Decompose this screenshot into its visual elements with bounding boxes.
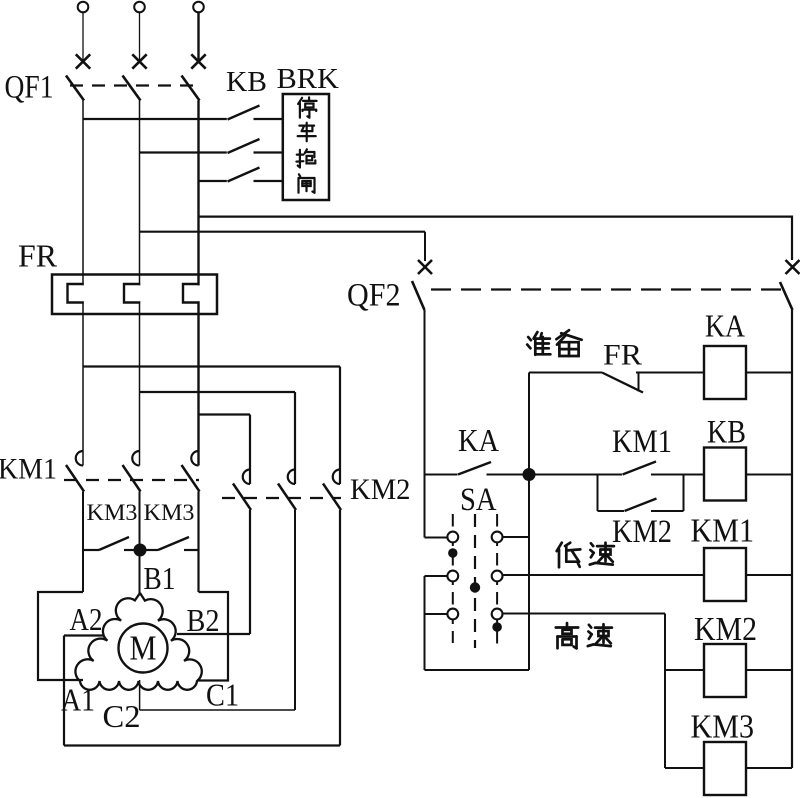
selector SA position dot right [492, 622, 502, 632]
label 备 [556, 330, 569, 339]
wire KA coil to rail [746, 372, 792, 374]
contactor KM3 contact right blade [158, 537, 189, 550]
contactor KM2 main contact 2 arc [288, 470, 295, 485]
switch KB contact 1 right wire [254, 118, 283, 120]
selector SA right dashed column [496, 514, 498, 647]
svg-text:C1: C1 [206, 677, 239, 713]
svg-text:KM1: KM1 [0, 453, 57, 486]
thermal relay FR box [52, 275, 217, 315]
switch KB contact 3 right wire [254, 180, 283, 182]
breaker QF1 terminal X phase 3 [191, 54, 205, 68]
contactor coil KM1 [704, 548, 746, 601]
contactor contact KM1 blade (control) [623, 462, 657, 475]
contactor KM3 contact left blade [99, 537, 129, 550]
label 抱 [299, 150, 301, 168]
contactor coil KM3 [704, 742, 746, 795]
switch KB contact 1 left wire [83, 118, 227, 120]
svg-text:QF2: QF2 [347, 278, 401, 314]
wire C2 horizontal [140, 709, 295, 711]
svg-text:A2: A2 [70, 601, 103, 637]
selector SA row3 left circle [447, 609, 458, 620]
label 速 (low) [591, 543, 593, 546]
label 低 [557, 543, 562, 551]
breaker QF1 blade phase 3 [182, 76, 200, 101]
contactor KM2 main contact 3 blade [323, 484, 341, 511]
svg-text:KM2: KM2 [612, 514, 672, 550]
wire rung3 (low speed) [502, 574, 704, 576]
thermal relay FR heater 2 [124, 284, 140, 303]
svg-text:KM1: KM1 [612, 424, 672, 460]
wire KM3 coil left [665, 767, 704, 769]
switch KB contact 3 left wire [199, 180, 227, 182]
contactor KM3 contact right stub [144, 549, 158, 551]
wire riser A2-rail to KM2 contact 3 [339, 510, 341, 746]
selector SA position dot middle [470, 582, 480, 592]
breaker QF1 blade phase 1 [66, 76, 84, 101]
wire SA row3 left stub [425, 613, 449, 615]
breaker QF2 linkage dashed [431, 288, 786, 290]
label 速 (high) [589, 625, 591, 628]
contactor KM1 main contact 1 blade [66, 465, 84, 492]
wire L1 below KM1 [82, 492, 84, 593]
wire SA row1 left stub [425, 537, 449, 539]
selector SA position dot left [448, 548, 457, 557]
wire lead phase 1 [82, 13, 84, 62]
contactor KM2 main contact 3 arc [333, 470, 340, 485]
wire rung1 right [636, 372, 704, 374]
thermal relay FR NC blade [602, 373, 643, 393]
wire A2 bottom rail [64, 744, 340, 746]
svg-text:KM3: KM3 [144, 500, 195, 525]
contactor KM2 main contact 1 arc [243, 470, 250, 485]
wire branch L3 to KM2 contact 1 [199, 413, 251, 415]
wire branch L2 to KM2 contact 2 [140, 391, 296, 393]
wire A2 horizontal [64, 634, 103, 636]
breaker QF2 right blade [780, 282, 793, 310]
selector SA row1 left circle [447, 532, 458, 543]
svg-text:KA: KA [458, 422, 499, 458]
selector SA left dashed column [452, 514, 454, 643]
thermal relay FR heater 3 [183, 284, 199, 303]
relay coil KA [704, 346, 746, 399]
breaker QF1 linkage dashed [70, 84, 196, 86]
relay contact KA blade [458, 462, 491, 475]
svg-text:KM1: KM1 [691, 513, 755, 550]
switch KB contact 2 right wire [254, 151, 283, 153]
svg-text:KM3: KM3 [87, 500, 138, 525]
svg-text:FR: FR [603, 339, 642, 372]
selector SA row1 right circle [492, 532, 503, 543]
wire top rail from L3 to right rail [199, 216, 793, 218]
wire phase 2 vertical L2 [139, 101, 141, 466]
switch KB contact 1 blade [228, 106, 260, 120]
svg-text:KM2: KM2 [350, 473, 411, 506]
breaker QF2 left blade [412, 281, 425, 310]
contactor KM3 contact right fixed stub [184, 549, 199, 551]
wire KM2 parallel left vertical [597, 475, 599, 512]
svg-text:A1: A1 [61, 682, 95, 718]
label 停 [298, 98, 302, 104]
wire rung1 left [529, 372, 602, 374]
svg-text:KM3: KM3 [691, 709, 755, 746]
contactor KM1 main contact 2 arc [132, 451, 139, 466]
wire high-speed vertical [664, 614, 666, 769]
wire branch L1 to KM2 contact 3 [83, 365, 340, 367]
supply terminal circle phase 3 [193, 2, 204, 13]
wire KM2 parallel bottom right [651, 510, 684, 512]
switch KB contact 2 left wire [140, 151, 227, 153]
wire from L2 to QF2 [140, 231, 426, 233]
supply terminal circle phase 1 [78, 2, 89, 13]
contactor KM1 main contact 3 arc [191, 451, 198, 466]
contactor KM1 main contact 3 blade [182, 465, 200, 492]
wire L3 to C1 outer path [197, 592, 228, 681]
switch KB contact 2 blade [228, 139, 260, 153]
wire KM2 coil to rail [746, 669, 792, 671]
svg-text:BRK: BRK [277, 63, 340, 95]
contactor KM2 main contact 2 blade [278, 484, 296, 511]
motor windings delta [75, 593, 201, 690]
contactor KM3 contact left fixed stub [124, 549, 136, 551]
svg-text:SA: SA [460, 482, 497, 518]
contactor contact KM2 blade (control) [625, 499, 657, 512]
thermal relay FR heater 1 [68, 284, 84, 303]
svg-text:KA: KA [705, 308, 745, 344]
switch KB contact 3 blade [228, 168, 260, 182]
selector SA row3 right circle [492, 609, 503, 620]
wire SA bottom link [425, 669, 530, 671]
brake unit BRK box [283, 94, 329, 200]
breaker QF1 terminal X phase 1 [76, 54, 90, 68]
wire B2 horizontal [177, 633, 250, 635]
wire lead phase 3 [197, 13, 199, 62]
contactor KM1 linkage dashed [64, 479, 199, 481]
svg-text:M: M [130, 629, 157, 668]
contactor KM2 linkage dashed [222, 497, 341, 499]
motor circle M [119, 624, 168, 673]
wire L3 below KM1 [197, 492, 199, 593]
wire KM2 parallel right vertical [683, 475, 685, 512]
svg-text:KB: KB [707, 415, 746, 451]
svg-text:B2: B2 [187, 602, 220, 638]
wire KM2 parallel bottom left [598, 510, 625, 512]
label 高 [566, 623, 569, 626]
breaker QF1 terminal X phase 2 [132, 54, 146, 68]
wire KM1 coil to rail [746, 574, 792, 576]
selector SA row2 left circle [447, 571, 458, 582]
wire rung2 left [425, 474, 458, 476]
thermal relay FR stop bar [638, 373, 640, 392]
wire phase 1 vertical L1 [82, 101, 84, 466]
wire C2 stub [139, 680, 141, 710]
contactor KM1 main contact 1 arc [76, 451, 83, 466]
wire riser C2 to KM2 contact 2 [294, 510, 296, 710]
breaker QF2 left X [418, 260, 432, 274]
supply terminal circle phase 2 [134, 2, 145, 13]
wire lead phase 2 [139, 13, 141, 62]
svg-text:B1: B1 [144, 560, 176, 596]
svg-text:QF1: QF1 [5, 70, 54, 106]
wire QF2 left vertical down [424, 310, 426, 538]
contactor KM3 contact left stub [83, 549, 99, 551]
breaker QF1 blade phase 2 [123, 76, 141, 101]
contactor KM2 main contact 1 blade [233, 484, 251, 511]
wire L1 to A1 outer path [38, 592, 83, 680]
contactor coil KM2 [704, 644, 746, 697]
selector SA middle dashed column [474, 514, 476, 648]
node junction dot KM3 [134, 544, 147, 557]
wire QF2 stub [424, 232, 426, 261]
wire rung2 right [651, 474, 704, 476]
svg-text:C2: C2 [103, 698, 141, 734]
node vertical SA right rail top [528, 373, 530, 671]
wire SA row2 left hook [425, 575, 449, 577]
breaker QF2 right X [786, 260, 800, 274]
selector SA row2 right circle [492, 571, 503, 582]
wire SA row1 right stub [502, 536, 529, 538]
wire A2 vertical [63, 636, 65, 746]
node junction dot rung2 [523, 468, 536, 481]
svg-text:KM2: KM2 [694, 611, 757, 648]
wire right rail upper [791, 216, 793, 261]
wire rung2 middle [487, 474, 623, 476]
wire SA left lower vertical [424, 576, 426, 670]
label 准 [528, 337, 531, 340]
wire rung high-speed horizontal [502, 613, 665, 615]
wire right rail main [791, 310, 793, 768]
wire KM3 coil to rail [746, 767, 792, 769]
wire L2 below KM1 to motor B1 [139, 492, 141, 595]
svg-text:FR: FR [18, 238, 58, 274]
wire KB coil to rail [746, 474, 792, 476]
relay coil KB [704, 448, 746, 501]
contactor KM1 main contact 2 blade [123, 465, 141, 492]
wire phase 3 vertical L3 [197, 101, 199, 466]
label 车 [299, 124, 314, 126]
wire riser B2 to KM2 contact 1 [249, 510, 251, 634]
svg-text:KB: KB [226, 67, 267, 98]
wire KM2 coil left [665, 669, 704, 671]
label 闸 [299, 174, 300, 176]
